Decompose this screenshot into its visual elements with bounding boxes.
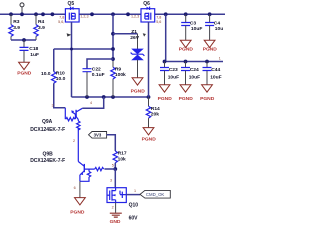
wire Q10 drain to flag xyxy=(126,194,140,196)
svg-text:10uF: 10uF xyxy=(191,26,202,32)
resistor Q9A internal R2 (emitter rail zigzag) xyxy=(77,120,80,162)
wire R3-R4 bottom xyxy=(11,39,36,41)
svg-text:100k: 100k xyxy=(115,72,126,78)
wire top rail xyxy=(0,13,225,15)
wire R10 top net xyxy=(54,48,113,50)
svg-text:1,2,3: 1,2,3 xyxy=(80,14,88,18)
arrow marker near Q6 gate xyxy=(143,33,146,36)
node C18 tap xyxy=(22,38,26,42)
wire Q10 source down xyxy=(115,203,117,213)
node R14 top xyxy=(147,95,151,99)
svg-text:C3: C3 xyxy=(190,20,197,26)
ground PGND (C3) xyxy=(179,40,194,52)
svg-text:6: 6 xyxy=(74,186,76,190)
svg-text:PGND: PGND xyxy=(131,89,146,95)
svg-text:R10: R10 xyxy=(56,70,65,76)
svg-text:Z1: Z1 xyxy=(131,29,137,35)
svg-text:26V: 26V xyxy=(130,35,139,41)
ground GND (Q10) xyxy=(110,213,122,225)
svg-text:10k: 10k xyxy=(118,156,126,162)
ground PGND (C23) xyxy=(158,85,173,102)
svg-text:GND: GND xyxy=(110,219,121,225)
capacitor C23 xyxy=(160,62,179,85)
ground PGND (Q9B) xyxy=(70,198,85,216)
resistor R17 xyxy=(113,151,127,169)
svg-text:10uF: 10uF xyxy=(210,74,221,80)
resistor R10 xyxy=(41,49,66,108)
wire Q9A collector to mid net xyxy=(82,97,103,108)
resistor R4 xyxy=(34,14,45,40)
zener Z1 xyxy=(113,29,144,78)
svg-text:60V: 60V xyxy=(129,216,139,222)
svg-text:3.9: 3.9 xyxy=(38,25,45,31)
svg-text:R3: R3 xyxy=(13,19,20,25)
svg-text:C4: C4 xyxy=(214,20,221,26)
svg-text:PGND: PGND xyxy=(158,96,173,102)
junction dots on top rail xyxy=(9,12,211,16)
svg-text:1: 1 xyxy=(219,57,221,61)
svg-text:Q6: Q6 xyxy=(143,1,150,7)
svg-text:5: 5 xyxy=(112,163,114,167)
node R9 bottom xyxy=(111,95,115,99)
transistor Q9B xyxy=(30,151,115,181)
svg-text:0.1uF: 0.1uF xyxy=(92,72,105,78)
capacitor C44 xyxy=(203,62,222,85)
svg-text:PGND: PGND xyxy=(200,96,215,102)
svg-text:7,8: 7,8 xyxy=(59,16,64,20)
svg-text:CMD_OK: CMD_OK xyxy=(146,192,165,197)
svg-text:3: 3 xyxy=(110,179,112,183)
arrow marker near Q5 gate xyxy=(67,33,72,36)
svg-text:PGND: PGND xyxy=(142,137,157,143)
svg-text:PGND: PGND xyxy=(70,210,85,216)
capacitor C24 xyxy=(181,62,200,85)
ground PGND (R14) xyxy=(142,128,157,143)
wire Q5 gate rail down xyxy=(71,22,73,97)
svg-text:R17: R17 xyxy=(118,151,127,157)
transistor Q9A xyxy=(30,101,92,133)
svg-text:R14: R14 xyxy=(151,106,160,112)
svg-text:PGND: PGND xyxy=(17,71,32,77)
svg-text:1: 1 xyxy=(134,189,136,193)
node wire49 tee xyxy=(111,47,115,51)
flag 3V3 xyxy=(89,132,116,152)
svg-text:2: 2 xyxy=(112,206,114,210)
transistor Q10 xyxy=(107,188,138,222)
svg-text:1uF: 1uF xyxy=(30,52,39,58)
resistor R9 xyxy=(111,66,126,79)
svg-text:3: 3 xyxy=(51,104,53,108)
svg-text:10u: 10u xyxy=(215,26,223,32)
flag CMD_OK xyxy=(140,190,170,198)
svg-text:DCX124EK-7-F: DCX124EK-7-F xyxy=(30,158,65,164)
svg-text:PGND: PGND xyxy=(179,96,194,102)
svg-text:DCX124EK-7-F: DCX124EK-7-F xyxy=(30,127,65,133)
svg-text:1,2,3: 1,2,3 xyxy=(131,14,139,18)
resistor R14 xyxy=(146,97,160,128)
svg-text:3V3: 3V3 xyxy=(94,133,102,138)
ground PGND (C24) xyxy=(179,85,194,102)
wire Q9B emitter down xyxy=(79,181,81,197)
node C44 xyxy=(205,60,209,64)
svg-text:20k: 20k xyxy=(151,112,159,118)
node terminal J (open circle) xyxy=(20,3,24,14)
ground PGND (Z1) xyxy=(131,78,146,95)
transistor Q5 xyxy=(58,1,88,24)
capacitor C3 xyxy=(181,14,202,40)
svg-text:R4: R4 xyxy=(38,19,45,25)
wire vertical rail x=113 xyxy=(112,14,114,97)
svg-text:10uF: 10uF xyxy=(189,74,200,80)
ground PGND (C4) xyxy=(203,40,218,52)
svg-text:PGND: PGND xyxy=(203,46,218,52)
node gate crossing xyxy=(70,48,73,51)
svg-text:10uF: 10uF xyxy=(168,74,179,80)
node base net Q9B xyxy=(113,167,117,171)
node C23 xyxy=(163,60,167,64)
transistor Q6 xyxy=(131,1,161,24)
svg-text:Q10: Q10 xyxy=(129,203,139,209)
svg-text:7,8: 7,8 xyxy=(156,16,161,20)
resistor R3 xyxy=(9,14,20,40)
svg-text:C18: C18 xyxy=(29,46,38,52)
wire Q10 drain riser xyxy=(114,169,116,188)
svg-text:C22: C22 xyxy=(92,66,101,72)
svg-text:Q5: Q5 xyxy=(68,1,75,7)
svg-text:R9: R9 xyxy=(115,66,122,72)
svg-text:Q9A: Q9A xyxy=(42,119,53,125)
node Q9A collector riser xyxy=(102,95,106,99)
svg-text:10.0: 10.0 xyxy=(41,71,51,77)
svg-text:C23: C23 xyxy=(169,67,178,73)
svg-text:C24: C24 xyxy=(190,67,199,73)
svg-text:4: 4 xyxy=(90,101,92,105)
wire Q6 gate rail down xyxy=(148,22,150,97)
svg-text:2: 2 xyxy=(73,139,75,143)
svg-text:10.0: 10.0 xyxy=(56,76,66,82)
svg-text:5,6: 5,6 xyxy=(156,20,161,24)
node C22 tee xyxy=(111,57,115,61)
svg-text:3.9: 3.9 xyxy=(13,25,20,31)
ground PGND (C18) xyxy=(17,62,32,76)
svg-text:Q9B: Q9B xyxy=(43,151,54,157)
ground PGND (C44) xyxy=(200,85,215,102)
wire mid net (gate of Q5 to R14) xyxy=(72,96,149,98)
node C22 bottom xyxy=(85,95,89,99)
capacitor C22 xyxy=(83,59,114,97)
node C24 xyxy=(184,60,188,64)
capacitor C4 xyxy=(205,14,223,40)
svg-text:PGND: PGND xyxy=(179,46,194,52)
node Z1 tee xyxy=(111,32,115,36)
svg-text:5,6,: 5,6, xyxy=(58,20,64,24)
svg-text:C44: C44 xyxy=(211,67,220,73)
wire riser to cap row 2 xyxy=(165,14,224,61)
capacitor C18 xyxy=(20,40,40,62)
